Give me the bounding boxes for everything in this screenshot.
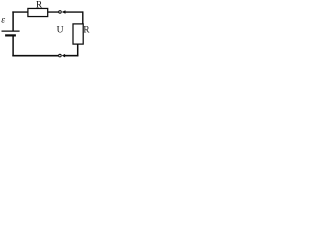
wire left vertical upper bbox=[12, 11, 14, 31]
svg-text:U: U bbox=[57, 26, 64, 36]
svg-text:R: R bbox=[36, 0, 43, 9]
resistor R2 (right box) bbox=[73, 24, 83, 44]
wire left vertical lower bbox=[12, 36, 14, 57]
battery long thin plate bbox=[2, 30, 20, 32]
wire top right bbox=[65, 11, 83, 13]
wire right vertical lower stub bbox=[77, 44, 79, 56]
battery short thick plate bbox=[5, 34, 16, 36]
terminal circle (top) bbox=[58, 10, 62, 14]
wire bottom left bbox=[12, 55, 58, 57]
arrowhead (bottom, pointing left) bbox=[62, 54, 65, 58]
wire right vertical upper bbox=[82, 11, 84, 24]
svg-text:ε: ε bbox=[1, 15, 5, 26]
resistor R1 (top box) bbox=[28, 8, 48, 16]
wire top middle bbox=[48, 11, 59, 13]
wire bottom right bbox=[65, 55, 79, 57]
terminal circle (bottom) bbox=[58, 54, 62, 58]
wire top-left horizontal bbox=[12, 11, 28, 13]
svg-text:R: R bbox=[83, 25, 90, 35]
arrowhead (top, pointing left) bbox=[62, 10, 66, 14]
